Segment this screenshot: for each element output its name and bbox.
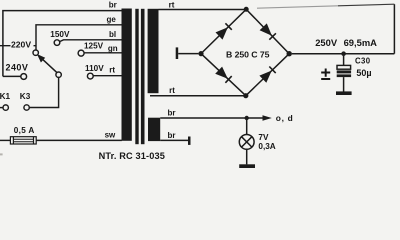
chassis terminal bar (LV bottom lead) — [188, 137, 191, 145]
transformer primary winding bar — [122, 9, 132, 141]
fuse F1 0,5A — [10, 137, 36, 144]
svg-text:0,3A: 0,3A — [258, 142, 275, 151]
wire: right edge riser of 250V rail — [393, 4, 395, 54]
ground bar (capacitor) — [336, 91, 352, 95]
node: bridge bottom vertex — [243, 93, 248, 98]
transformer core line 1 — [135, 9, 138, 144]
svg-text:br: br — [168, 131, 176, 140]
capacitor C30 plates — [337, 65, 351, 77]
svg-text:rt: rt — [169, 0, 175, 9]
bridge rectifier edges — [201, 9, 289, 95]
capacitor C30 lead — [343, 56, 345, 66]
wire: gn tap from 125V contact to transformer — [84, 52, 122, 54]
wire: top rail (faint) — [338, 4, 394, 6]
diode D4 (bottom to right) — [259, 67, 275, 83]
svg-text:o, d: o, d — [276, 113, 294, 123]
svg-text:K1: K1 — [0, 92, 11, 101]
svg-text:0,5 A: 0,5 A — [14, 126, 35, 135]
wire: mains input to fuse — [0, 139, 10, 141]
wire: bl tap from 150V contact to transformer — [60, 40, 122, 42]
diode D2 (top to right) — [260, 23, 276, 39]
contact 150V — [54, 40, 60, 46]
switch lever S1 with arrow head — [37, 54, 57, 73]
svg-text:bl: bl — [109, 30, 116, 39]
wire: ge tap from selector contact to transformer — [36, 25, 122, 50]
wire: sw lead from fuse to transformer primary bottom — [36, 139, 122, 141]
wire: HV secondary bottom lead to bridge bottom vertex — [150, 95, 244, 97]
capacitor ground stem — [343, 77, 345, 92]
switch pivot circle — [56, 72, 61, 77]
svg-text:240V: 240V — [6, 63, 29, 73]
svg-text:250V: 250V — [315, 37, 338, 48]
node: bridge top vertex — [244, 7, 249, 12]
arrow to o,d — [263, 115, 272, 121]
svg-text:125V: 125V — [84, 41, 104, 50]
svg-text:150V: 150V — [50, 30, 70, 39]
svg-text:110V: 110V — [85, 64, 104, 73]
node: capacitor junction on 250V line — [341, 51, 346, 56]
chassis terminal bar at bridge minus — [176, 47, 199, 59]
wire: 250V output line — [292, 53, 395, 55]
node: bridge right vertex — [287, 51, 292, 56]
svg-text:sw: sw — [105, 130, 116, 139]
node: lamp junction — [245, 116, 249, 120]
wire: br lead from transformer primary top to left side — [3, 11, 122, 77]
diode D1 (left to top) — [216, 23, 232, 39]
svg-text:NTr. RC 31-035: NTr. RC 31-035 — [99, 151, 165, 161]
wire: LV secondary top lead to lamp junction and arrow — [160, 117, 263, 119]
svg-text:K3: K3 — [20, 92, 31, 101]
wire: lamp top lead — [246, 118, 248, 135]
svg-text:±: ± — [321, 64, 331, 84]
svg-text:br: br — [109, 1, 117, 10]
wire: HV secondary top lead to bridge top vertex — [159, 9, 245, 11]
wire: 220V feeder line — [0, 45, 36, 47]
wire: rt tap from 110V contact to transformer — [93, 75, 122, 77]
contact 240V — [21, 74, 27, 80]
svg-text:ge: ge — [107, 15, 117, 24]
svg-text:C30: C30 — [355, 56, 371, 65]
contact 110V — [87, 73, 93, 79]
transformer LV secondary winding bar — [148, 118, 160, 141]
svg-text:69,5mA: 69,5mA — [344, 37, 378, 48]
svg-text:50µ: 50µ — [356, 68, 371, 78]
label 220V — [11, 39, 34, 49]
svg-text:rt: rt — [109, 66, 115, 75]
terminal K3 — [24, 105, 29, 110]
contact 125V — [78, 50, 84, 56]
diode D3 (left to bottom) — [215, 67, 232, 83]
wire: LV secondary bottom lead — [160, 139, 188, 141]
transformer core line 2 — [141, 9, 145, 144]
svg-text:7V: 7V — [258, 133, 269, 142]
svg-text:rt: rt — [169, 86, 175, 95]
wire: lamp bottom lead — [246, 149, 248, 164]
lamp La1 (circle with cross) — [239, 135, 254, 150]
wire: K3 to switch pivot — [29, 78, 58, 108]
node: bridge left vertex — [198, 51, 203, 56]
faint edge mark bottom-left — [0, 153, 3, 155]
svg-text:gn: gn — [108, 44, 118, 53]
svg-text:B 250 C 75: B 250 C 75 — [226, 49, 270, 59]
contact 220V (selector contact circle) — [33, 50, 38, 55]
transformer HV secondary winding bar — [148, 9, 159, 93]
terminal K1 — [0, 105, 8, 110]
svg-text:220V: 220V — [11, 39, 31, 49]
wire: 240V line — [3, 75, 21, 77]
svg-text:br: br — [168, 109, 176, 118]
ground bar (lamp) — [239, 164, 255, 168]
